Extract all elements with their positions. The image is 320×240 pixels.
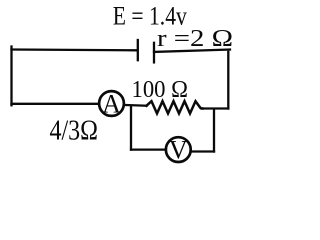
wire battery to top-right corner	[154, 50, 230, 52]
svg-text:100 Ω: 100 Ω	[132, 77, 189, 103]
wire bottom-left horizontal	[12, 103, 99, 105]
battery cell E right plate	[153, 43, 155, 63]
wire resistor right lead to corner	[203, 107, 229, 109]
wire voltmeter branch bottom-right	[192, 150, 215, 152]
battery cell E left plate	[137, 40, 139, 60]
wire left vertical	[10, 47, 12, 106]
wire top-left horizontal	[12, 48, 137, 51]
svg-text:r =2 Ω: r =2 Ω	[157, 26, 233, 52]
wire voltmeter branch bottom-left	[131, 148, 165, 150]
resistor R 100 ohm zigzag	[147, 101, 203, 113]
voltmeter V1 circle	[166, 137, 191, 162]
svg-text:A: A	[102, 90, 121, 119]
svg-text:4/3Ω: 4/3Ω	[50, 116, 99, 147]
wire voltmeter branch left vertical	[130, 106, 132, 150]
wire ammeter to resistor	[125, 104, 147, 107]
ammeter A1 circle	[99, 91, 124, 116]
svg-text:V: V	[169, 136, 188, 165]
wire right vertical	[227, 52, 229, 109]
wire voltmeter branch right vertical	[213, 109, 215, 151]
